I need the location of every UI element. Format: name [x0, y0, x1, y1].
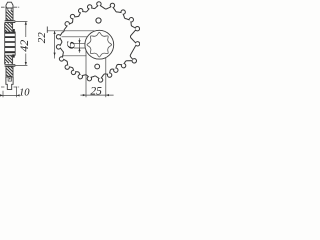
dimension 22 tick: [46, 27, 48, 33]
section upper band: [5, 20, 16, 21]
section bottom cup: [6, 77, 13, 89]
dimension 10 arrows: [0, 94, 20, 96]
dimension 25 extension right: [105, 58, 107, 97]
dimension 25 extension left: [85, 50, 87, 98]
section upper rim outline: [6, 8, 13, 20]
dimension 10 extension lines: [3, 87, 17, 98]
sprocket bore outer circle: [85, 30, 114, 59]
dimension 22 leader line: [47, 30, 94, 32]
keyway slot line upper: [62, 36, 88, 38]
slot center dot: [9, 78, 10, 80]
sprocket teeth outline: [56, 2, 139, 82]
section lower step block: [12, 54, 15, 57]
sprocket hole bottom: [95, 64, 100, 69]
section centerline bottom: [1, 86, 19, 88]
section bottom inner slot: [8, 76, 11, 81]
keyway slot line lower: [62, 55, 87, 57]
svg-text:42: 42: [17, 40, 31, 52]
section lower hub hatch: [5, 55, 12, 63]
section view top tooth cap: [6, 2, 13, 8]
section spline bore stripes: [5, 32, 16, 55]
dimension 10 line: [0, 94, 18, 96]
svg-text:6: 6: [65, 41, 77, 49]
section tooth root lines: [6, 8, 13, 10]
dimension 22 line: [54, 31, 56, 59]
section lower rim hatch: [6, 67, 12, 77]
section view centerline top: [1, 6, 19, 8]
dimension 42 arrows: [25, 21, 27, 65]
section upper rim hatch: [6, 10, 12, 20]
dimension 22 arrows: [54, 31, 56, 56]
sprocket spline bore profile: [87, 32, 112, 57]
dimension 42 extension lines: [15, 21, 28, 65]
svg-text:25: 25: [90, 85, 102, 97]
section lower rim outline: [6, 67, 13, 78]
section lower band: [5, 64, 16, 65]
section lower hub outline: [5, 55, 13, 64]
dimension 6 line: [79, 38, 81, 53]
sprocket hole top: [96, 18, 101, 23]
dimension 6 arrows: [78, 40, 80, 51]
dimension 25 arrows: [83, 94, 109, 96]
section upper hub outline: [5, 23, 13, 32]
svg-text:10: 10: [19, 87, 30, 98]
dimension 25 line: [80, 94, 113, 96]
section upper step block: [12, 29, 14, 32]
section upper hub hatch: [5, 23, 12, 32]
svg-text:22: 22: [36, 32, 48, 44]
dimension 42 line: [25, 22, 27, 65]
slot edge ticks: [74, 43, 86, 48]
